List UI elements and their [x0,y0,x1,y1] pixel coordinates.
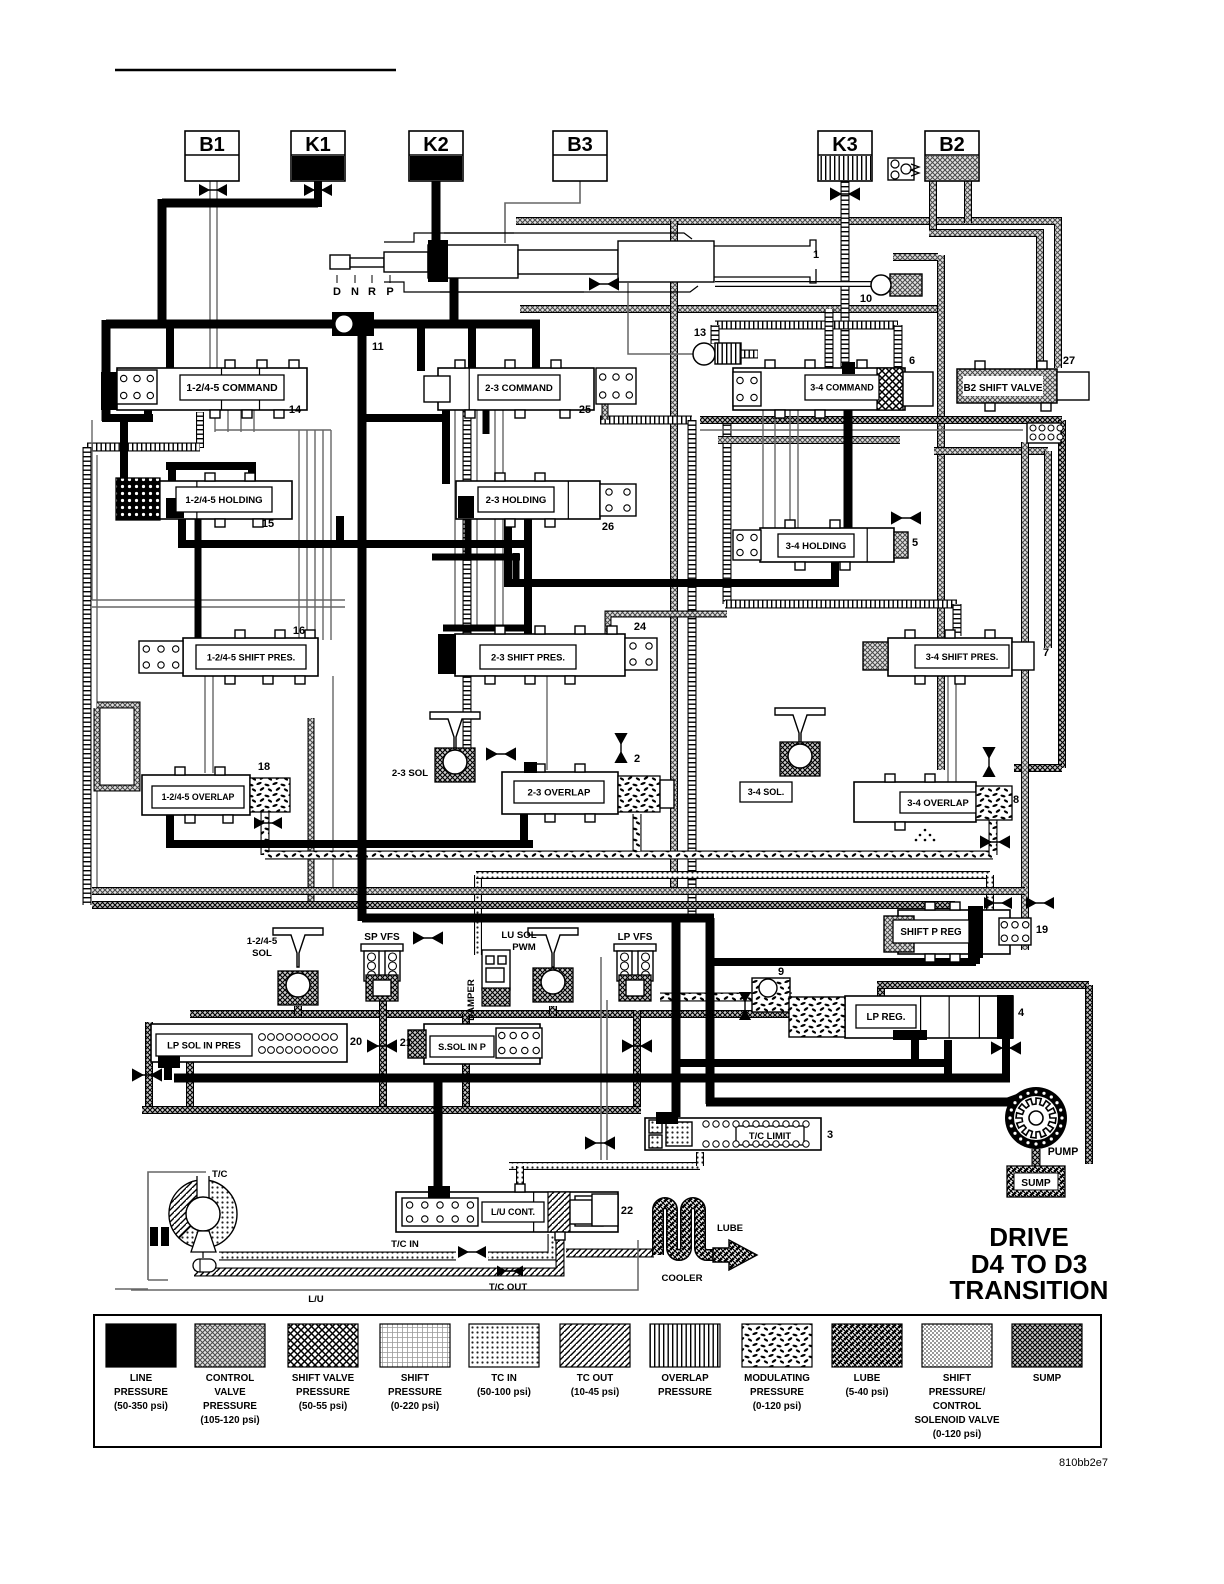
wire main vertical line x362 [358,324,367,921]
legend swatch LINE [106,1324,176,1412]
wire drop to 1-2/4-5 holding [248,466,256,484]
wire drop 2-3 command to holding [442,403,450,484]
orifice right of 3-4 holding [891,511,921,524]
svg-text:7: 7 [1043,647,1049,659]
wire main line-pressure header y324 [106,320,540,329]
orifice left of 2-3 overlap [486,747,516,760]
svg-text:18: 18 [258,761,270,773]
legend swatch MODULATING [742,1324,812,1412]
pipe cv vertical x311 [308,718,315,903]
wire B1 sense line b [216,181,218,372]
wire drop to L/U CONT [434,1080,443,1192]
pipe overlap drop to item 13 [711,325,720,344]
pipe tc-in under T/C LIMIT [509,1162,700,1170]
wire sense bundle right 4 [797,410,799,530]
clutch K1 [291,131,345,181]
valve 1-2/4-5 COMMAND item 14 [101,360,307,418]
svg-text:DRIVE: DRIVE [989,1222,1068,1252]
svg-text:LP VFS: LP VFS [618,932,653,943]
wire line vertical x710 [706,918,715,1104]
svg-text:3: 3 [827,1129,833,1141]
wire main bottom bus y1078 [174,1074,1010,1083]
pipe sump stub LU sol [549,1006,557,1016]
wire line header y962 [710,958,976,966]
pipe cv elbow y614 to 2-3 shift pres [608,614,727,634]
valve LP REG item 4 [789,995,1025,1040]
pipe cv header y891 [92,887,1025,895]
svg-text:CONTROL: CONTROL [206,1373,254,1384]
valve 1-2/4-5 OVERLAP item 18 [142,761,290,823]
valve 2-3 HOLDING item 26 [456,473,636,533]
svg-text:1-2/4-5: 1-2/4-5 [247,936,278,947]
wire sense bundle left 3 [314,430,316,640]
orifice below 3-4 overlap [980,835,1010,848]
pipe sump header below B2 shift valve [700,416,1062,424]
svg-text:11: 11 [372,341,384,353]
svg-text:DAMPER: DAMPER [466,979,477,1021]
svg-text:1-2/4-5 SHIFT PRES.: 1-2/4-5 SHIFT PRES. [207,652,295,662]
manual valve K2 black land [428,240,448,282]
svg-text:SP VFS: SP VFS [364,932,400,943]
wire command port stub 1 [214,408,216,432]
svg-text:2-3 OVERLAP: 2-3 OVERLAP [528,787,592,798]
svg-text:PRESSURE: PRESSURE [296,1387,350,1398]
orifice on T/C OUT elbow [497,1266,523,1277]
legend swatch OVERLAP [650,1324,720,1398]
pipe overlap stub below 1-2/4-5 command [196,412,204,448]
svg-text:B3: B3 [567,134,593,156]
pipe overlap vertical x727 [723,424,732,604]
pipe modulating drop from 1-2/4-5 overlap [261,812,270,855]
solenoid by B2 [888,158,919,180]
pipe check frame left of 1-2/4-5 overlap [97,705,137,788]
pipe dotted drop to shift p reg [986,875,994,914]
svg-text:TRANSITION: TRANSITION [950,1275,1109,1305]
solenoid 3-4 SOL [740,708,825,802]
pipe tc-in riser to T/C LIMIT [696,1152,704,1166]
svg-text:1: 1 [813,249,819,261]
wire overlap-row drop left [166,810,174,848]
wire holding header y544 [178,540,532,548]
svg-text:810bb2e7: 810bb2e7 [1059,1457,1108,1469]
wire holding header y583 [504,579,839,587]
svg-text:SUMP: SUMP [1021,1178,1051,1189]
pipe modulating drop from 3-4 overlap [989,820,998,855]
orifice left end of bottom bus [132,1068,162,1081]
legend swatch TC IN [469,1324,539,1398]
wire line header y1102 to pump [706,1098,1012,1107]
wire shift-p-reg down stub [972,954,980,964]
valve 1-2/4-5 HOLDING item 15 [116,473,292,530]
orifice under K3 [830,187,860,200]
solenoid SP VFS [361,932,403,1001]
damper [466,950,510,1021]
svg-text:PRESSURE: PRESSURE [658,1387,712,1398]
valve 1-2/4-5 SHIFT PRES item 16 [139,625,318,684]
pipe cv header y309 [520,305,941,313]
pipe cv vertical x941 [937,255,945,770]
svg-text:21: 21 [400,1037,412,1049]
svg-text:(0-220 psi): (0-220 psi) [391,1401,439,1412]
svg-text:3-4 COMMAND: 3-4 COMMAND [810,383,874,393]
orifice right of 1-2/4-5 sol [413,931,443,944]
svg-text:2-3 COMMAND: 2-3 COMMAND [485,383,553,394]
pipe sump vertical x466 [462,1014,470,1110]
svg-text:T/C IN: T/C IN [391,1239,419,1250]
svg-text:R: R [368,286,376,298]
svg-text:S.SOL IN P: S.SOL IN P [438,1042,486,1052]
wire thin feed to item 13 [628,283,693,354]
svg-text:TC IN: TC IN [491,1373,517,1384]
wire thin x601 to item 22 [600,957,602,1160]
wire sense bundle mid 2 [476,408,478,630]
pipe cv header y221 to B2 shift valve [516,221,1058,368]
pipe sump drop to shift p reg [951,905,959,916]
svg-text:2-3 SOL: 2-3 SOL [392,768,428,779]
pipe sump header y1110 [142,1106,641,1114]
torque converter T/C [115,1169,237,1289]
pipe sump header y1014 [190,1010,881,1018]
wire elbow y466 left [166,462,256,470]
svg-text:K3: K3 [832,134,858,156]
wire 2-3 holding drop x508 [504,516,512,587]
solenoid below B2 shift valve [1027,423,1063,443]
pipe modulating drop from 2-3 overlap [633,814,642,851]
wire left line-pressure drop [158,199,167,328]
pipe cv vertical x1048 [1044,451,1052,648]
orifice above T/C LIMIT [585,1136,615,1149]
pipe overlap drop x829 [825,309,834,368]
pipe sump LP REG frame top [877,981,1089,989]
pipe cv long vertical x674 [670,273,678,889]
svg-text:25: 25 [579,404,591,416]
svg-text:OVERLAP: OVERLAP [661,1373,709,1384]
wire sense bundle mid 4 [502,408,504,630]
wire jog x516 to header y583 [513,553,520,587]
svg-text:B1: B1 [199,134,225,156]
pipe overlap header y604 [725,600,957,609]
wire command port stub 4 [253,408,255,432]
orifice pair near item 19 b [984,897,1012,909]
pipe B2 right drop [964,181,972,223]
svg-text:3-4 SOL.: 3-4 SOL. [748,787,785,797]
wire K2 drop lower [450,272,459,328]
pipe cv header y233 [929,233,1040,368]
pipe thin white to item 10 [715,281,872,287]
clutch B3 [553,131,607,181]
wire 2-3 holding drop to shift-pres [524,516,532,634]
pipe T/C IN left [219,1252,456,1261]
wire thin x333 down [332,676,334,889]
svg-text:MODULATING: MODULATING [744,1373,810,1384]
pipe cv vertical x1025 to item 19 [1021,442,1029,950]
sump reservoir [1007,1166,1065,1197]
orifice right of LP REG [991,1041,1021,1054]
pipe sump right-edge vertical [1058,420,1066,768]
pump [1005,1087,1078,1158]
svg-text:SOL: SOL [252,948,272,959]
svg-text:D: D [333,286,341,298]
wire holding stub x340 [336,516,344,548]
svg-text:PRESSURE/: PRESSURE/ [929,1387,986,1398]
svg-text:20: 20 [350,1036,362,1048]
svg-text:PRESSURE: PRESSURE [203,1401,257,1412]
svg-text:PRESSURE: PRESSURE [114,1387,168,1398]
valve B2 SHIFT VALVE item 27 [957,355,1089,411]
svg-text:LU SOL: LU SOL [501,930,536,941]
svg-text:3-4 OVERLAP: 3-4 OVERLAP [907,797,968,808]
wire L/U line [131,1240,638,1290]
pipe T/C IN riser [488,1234,552,1256]
wire 2-3 holding drop x468 [465,516,472,560]
svg-text:(0-120 psi): (0-120 psi) [933,1429,981,1440]
wire left thin vertical [91,420,93,600]
svg-text:P: P [386,286,393,298]
legend swatch LUBE [832,1324,902,1398]
valve LP SOL IN PRES item 20 [151,1024,362,1068]
wire sense bundle right 2 [774,410,776,530]
svg-text:B2: B2 [939,134,965,156]
svg-text:(10-45 psi): (10-45 psi) [571,1387,619,1398]
svg-text:14: 14 [289,404,302,416]
item 9 valve [752,966,790,1012]
legend swatch SHIFT VALVE [288,1324,358,1412]
item 10 pilot valve [860,274,922,305]
svg-text:24: 24 [634,621,647,633]
wire command port stub 3 [240,408,242,432]
pipe dotted header y875 [476,871,990,879]
valve 2-3 COMMAND item 25 [424,360,636,418]
svg-text:22: 22 [621,1205,633,1217]
wire line drop x124 [120,418,128,480]
wire sense bundle right 3 [789,410,791,530]
svg-text:2-3 SHIFT PRES.: 2-3 SHIFT PRES. [491,651,565,662]
svg-text:3-4 SHIFT PRES.: 3-4 SHIFT PRES. [926,652,999,662]
wire line elbow y418 [102,414,153,422]
wire elbow under 2-3 command [362,414,446,422]
orifice below manual valve [589,277,619,290]
orifice on T/C IN [458,1246,486,1258]
pipe modulating from LP VFS to item 9 [660,993,792,1002]
wire line vertical x676 [672,918,681,1117]
wire lp-sol drop [164,1056,172,1080]
pipe overlap drop to 3-4 command [894,325,903,368]
wire line header y844 [166,840,533,848]
solenoid LU SOL PWM [501,928,578,1002]
legend swatch SHIFT [914,1324,1000,1440]
svg-text:VALVE: VALVE [214,1387,246,1398]
pipe sump vertical x383 [379,998,387,1110]
wire drop to 2-3 command a [417,324,425,371]
pipe cooler feed [566,1249,654,1258]
pipe cv stub below 2-3 command screen [602,402,609,420]
wire 1-2/4-5 holding down stub [178,516,186,548]
wire far-left thin companion [96,455,98,888]
svg-text:(50-350 psi): (50-350 psi) [114,1401,168,1412]
pipe tc-in drop to L/U CONT [516,1166,524,1190]
pipe sump vertical x637 [633,1010,641,1110]
svg-text:1-2/4-5 COMMAND: 1-2/4-5 COMMAND [186,383,278,394]
wire line into pump [1008,1096,1024,1102]
svg-text:27: 27 [1063,355,1075,367]
wire 3-4 shiftpres-overlap link 2 [955,676,957,782]
exhaust sprinkle below 3-4 overlap [915,829,936,842]
wire line header y1063 [672,1059,945,1067]
wire drop to 2-3 command c [532,324,540,371]
wire shiftpres-overlap link 2 [212,676,214,773]
svg-text:PRESSURE: PRESSURE [750,1387,804,1398]
svg-text:TC OUT: TC OUT [577,1373,613,1384]
wire line header y918 [362,914,714,923]
wire left thin pair y600 a [92,599,345,601]
svg-text:19: 19 [1036,924,1048,936]
pipe modulating header y855 [265,851,993,860]
svg-text:3-4 HOLDING: 3-4 HOLDING [786,541,847,552]
wire B3 sense line [505,181,580,243]
pipe sump vertical x190 [186,1060,194,1110]
wire 3-4 shiftpres-overlap link 1 [947,676,949,782]
valve S.SOL IN P item 21 [400,1024,542,1064]
valve 2-3 OVERLAP item 2 [502,753,674,822]
pipe T/C OUT main [194,1236,560,1272]
svg-text:9: 9 [778,966,784,978]
wire K1 line-pressure header [162,199,318,208]
svg-text:T/C OUT: T/C OUT [489,1282,528,1293]
pipe sump header y905 [92,901,955,909]
svg-text:PWM: PWM [512,942,535,953]
pipe overlap stub from item 13 [741,350,758,359]
orifice below 1-2/4-5 overlap mod box [254,817,282,829]
wire riser to 2-3 overlap [520,772,528,848]
legend swatch CONTROL [195,1324,265,1426]
wire drop to 1-2/4-5 command [166,324,174,378]
orifice under K1 [304,184,332,196]
svg-text:SHIFT VALVE: SHIFT VALVE [292,1373,355,1384]
valve T/C LIMIT item 3 [645,1112,833,1150]
svg-text:SHIFT: SHIFT [401,1373,429,1384]
svg-text:CONTROL: CONTROL [933,1401,981,1412]
svg-text:PRESSURE: PRESSURE [388,1387,442,1398]
svg-text:16: 16 [293,625,305,637]
pipe K3 overlap drop [841,181,850,368]
svg-text:4: 4 [1018,1007,1025,1019]
wire shiftpres-overlap link 1 [204,676,206,773]
wire drop to 2-3 command b [468,324,476,371]
pipe sump elbow y768 to 3-4 overlap [1014,764,1062,772]
svg-text:K2: K2 [423,134,449,156]
pipe far-left overlap vertical [83,447,92,905]
legend swatch TC OUT [560,1324,630,1398]
svg-text:LUBE: LUBE [717,1223,744,1234]
pipe pump to sump [1032,1149,1041,1166]
wire stub below 2-3 command [483,403,490,434]
svg-text:LUBE: LUBE [854,1373,881,1384]
legend swatch SUMP [1012,1324,1082,1384]
svg-text:10: 10 [860,293,872,305]
pipe cv stub above manual valve [670,221,678,250]
wire sense bundle mid 3 [494,408,496,630]
svg-text:L/U: L/U [308,1294,324,1305]
pipe overlap header y325 [715,321,898,330]
wire drop to 1-2/4-5 shift pres [195,516,202,640]
wire LP REG drop a [911,1040,919,1063]
wire sense bundle mid 1 [454,408,456,630]
svg-text:SUMP: SUMP [1033,1373,1062,1384]
svg-text:T/C LIMIT: T/C LIMIT [749,1130,791,1141]
svg-text:2-3 HOLDING: 2-3 HOLDING [486,495,547,506]
manual valve detent labels D N R P [333,275,394,298]
vertical orifice above 3-4 overlap mod box [982,747,995,777]
cooler coil [658,1203,715,1255]
valve 3-4 OVERLAP item 8 [854,774,1019,830]
orifice right of LP SOL [367,1039,397,1052]
wire 2-3 shift pres top bar [443,625,530,632]
wire 3-4 command to holding drop [844,368,853,562]
wire 2-3 shiftpres-overlap link [546,676,548,770]
clutch K3 [818,131,872,181]
svg-text:15: 15 [262,518,274,530]
orifice under B1 [199,184,227,196]
orifice pair near item 19 c [1026,897,1054,909]
pipe overlap drop to 3-4 shift pres [953,604,962,636]
pipe overlap elbow y420 [600,416,692,425]
pipe overlap long vertical x692 [688,420,697,921]
svg-text:26: 26 [602,521,614,533]
pipe sump right vertical to pump [1085,985,1093,1164]
junction node 11 [332,312,384,353]
legend swatch SHIFT [380,1324,450,1412]
pipe sump vertical x149 [145,1022,153,1112]
clutch K2 [409,131,463,181]
pipe sump stub 1-2/4-5 sol [294,1006,302,1016]
svg-text:SOLENOID VALVE: SOLENOID VALVE [914,1415,1000,1426]
svg-text:(5-40 psi): (5-40 psi) [845,1387,888,1398]
wire K1 drop [314,181,322,207]
valve 3-4 COMMAND item 6 [733,355,933,418]
svg-text:N: N [351,286,359,298]
svg-text:(50-100 psi): (50-100 psi) [477,1387,531,1398]
title DRIVE D4 TO D3 TRANSITION [950,1222,1109,1305]
valve SHIFT P REG item 19 [884,902,1048,962]
wire sense bundle right 1 [762,410,764,530]
svg-text:PUMP: PUMP [1048,1146,1079,1158]
wire LP REG right bar drop [1002,1038,1010,1080]
svg-text:1-2/4-5 HOLDING: 1-2/4-5 HOLDING [185,495,262,506]
lube arrow [713,1240,757,1270]
wire drop to black screen [168,462,176,500]
legend box [94,1315,1101,1447]
svg-text:K1: K1 [305,134,331,156]
item 13 pilot valve [693,327,741,365]
top rule line [115,69,396,72]
wire command port stub 2 [227,408,229,432]
solenoid 2-3 SOL [392,712,480,782]
svg-text:L/U CONT.: L/U CONT. [491,1207,535,1217]
svg-text:(0-120 psi): (0-120 psi) [753,1401,801,1412]
svg-text:5: 5 [912,537,918,549]
clutch B1 [185,131,239,181]
pipe dotted drop x478 to damper [474,875,482,955]
orifice right of S.SOL [622,1039,652,1052]
solenoid 1-2/4-5 SOL [247,928,323,1005]
pipe cv header y451 [934,447,1048,455]
svg-text:LP REG.: LP REG. [866,1012,905,1023]
svg-text:LINE: LINE [130,1373,153,1384]
manual valve item 1 [330,233,819,292]
svg-text:SHIFT P REG: SHIFT P REG [900,927,962,938]
svg-text:B2 SHIFT VALVE: B2 SHIFT VALVE [963,383,1042,394]
wire sense bundle left 5 [330,430,332,640]
